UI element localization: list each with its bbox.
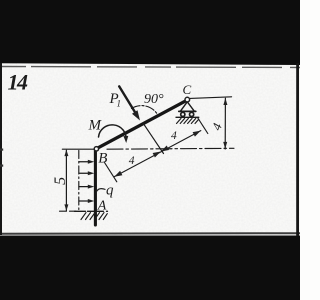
support hatching — [177, 118, 182, 123]
roller left — [181, 112, 185, 116]
svg-text:4: 4 — [129, 155, 135, 167]
triangle base bar — [179, 110, 196, 112]
load arrowhead 2 — [88, 171, 95, 175]
load arrowhead 4 — [88, 199, 95, 203]
svg-text:q: q — [106, 183, 114, 199]
moment M arc — [99, 125, 127, 140]
column AB — [94, 151, 97, 225]
support triangle at C — [180, 102, 194, 112]
oblique dimension line 4+4 — [114, 131, 201, 177]
load arrowhead 3 — [88, 185, 95, 189]
distributed load q boundary line (dash-dot) — [78, 151, 80, 211]
oblique dim NE arrowhead — [193, 131, 201, 137]
left page border — [0, 63, 2, 235]
load arrow 1 shaft — [79, 161, 89, 163]
pin circle B — [94, 147, 98, 151]
extension from support C for oblique dim — [198, 118, 208, 134]
dim 5 bottom arrowhead — [64, 204, 68, 211]
junction arrowhead pointing SW — [161, 146, 169, 152]
support ground line — [176, 116, 199, 118]
page crease line under band — [0, 67, 300, 68]
extension line from C to right — [190, 97, 232, 99]
svg-text:B: B — [98, 150, 107, 166]
pin circle C — [185, 97, 190, 102]
extension line at A level (for 5 dim) — [60, 210, 77, 212]
extension line at B level (for 5 dim) — [62, 148, 94, 150]
svg-text:14: 14 — [8, 70, 29, 95]
90 degree arc — [132, 106, 159, 116]
bottom gray page edge — [0, 232, 300, 235]
load arrowhead 1 — [88, 160, 95, 164]
extension from B for oblique dim — [105, 163, 117, 182]
svg-text:4: 4 — [171, 130, 177, 142]
ground line at A — [75, 210, 108, 212]
svg-text:5: 5 — [52, 177, 69, 185]
right dim top arrowhead — [223, 98, 227, 105]
junction arrowhead pointing NE — [153, 152, 161, 158]
oblique dim SW arrowhead — [114, 171, 122, 177]
beam BC — [98, 101, 186, 148]
svg-text:A: A — [97, 199, 107, 214]
P1 force shaft — [119, 86, 135, 113]
roller right — [190, 112, 194, 116]
svg-text:C: C — [183, 82, 192, 97]
dim 5 top arrowhead — [64, 150, 68, 157]
svg-text:M: M — [88, 118, 103, 134]
load arrow 4 shaft — [79, 200, 89, 202]
dimension line 5 — [65, 150, 67, 210]
ground hatching at A — [81, 213, 86, 220]
right dim bottom arrowhead — [223, 142, 227, 149]
bottom black band — [0, 236, 300, 300]
right dimension line 4 — [224, 98, 226, 149]
svg-text:1: 1 — [117, 99, 122, 109]
P1 arrowhead — [132, 110, 140, 120]
svg-text:90°: 90° — [144, 92, 164, 107]
load arrow 2 shaft — [79, 172, 89, 174]
middle extension (perpendicular from beam) — [143, 123, 164, 154]
dash-dot node line from B to right — [107, 147, 234, 150]
leader for q — [97, 189, 106, 192]
M arc arrowhead — [123, 136, 128, 143]
top black band — [0, 0, 300, 65]
right page border — [296, 63, 299, 236]
load arrow 3 shaft — [79, 186, 89, 188]
